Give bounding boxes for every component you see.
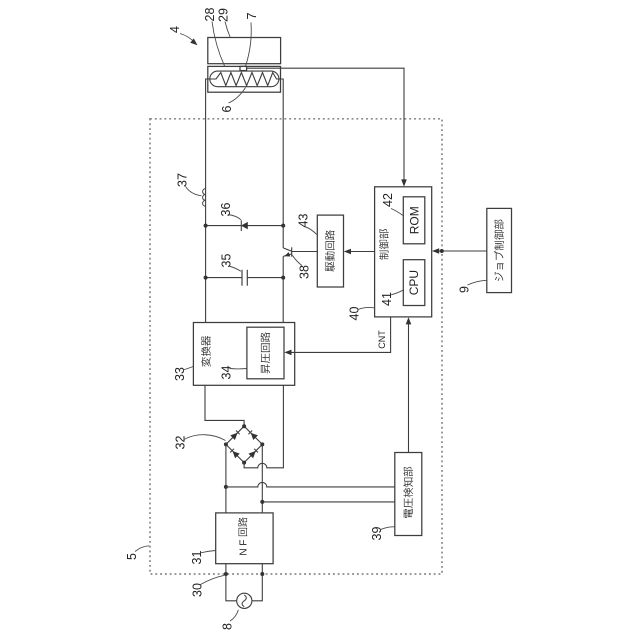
bridge diode top-left (230, 430, 240, 440)
label 9 leader (468, 280, 487, 285)
bridge right corner node (260, 442, 264, 446)
svg-text:29: 29 (217, 8, 231, 22)
wire bridge bottom to converter (with hop) (244, 385, 283, 468)
rectifier bridge 32 diamond (226, 426, 262, 462)
wire voltage detect to controller (408, 319, 410, 453)
wire capacitor row right (247, 277, 283, 279)
voltage detection box 39 (395, 453, 422, 536)
diode 36 cathode bar (240, 220, 242, 231)
job controller label text 9 (494, 220, 504, 281)
label 32 leader (184, 435, 226, 441)
wire diode row (206, 225, 284, 227)
thermistor 7 (240, 66, 247, 70)
converter box 33 (193, 323, 294, 386)
label 30 leader (201, 575, 225, 584)
wire controller to drive circuit (345, 251, 375, 253)
svg-text:30: 30 (191, 583, 205, 597)
heating element resistor zigzag 6 (210, 73, 279, 86)
bridge diode bottom-right (248, 448, 258, 458)
svg-text:34: 34 (220, 366, 234, 380)
wire bridge left corner to NF (225, 444, 227, 513)
controller label text 40 (379, 229, 389, 259)
bridge diode bottom-left (230, 448, 240, 458)
CPU box 41 (403, 260, 425, 306)
ROM box 42 (403, 197, 425, 244)
svg-text:38: 38 (298, 265, 312, 279)
svg-text:CNT: CNT (377, 330, 387, 349)
power supply unit dashed border 5 (150, 119, 442, 574)
svg-text:42: 42 (381, 193, 395, 207)
label 6 leader (229, 88, 246, 104)
wire right rail lower (transistor to converter) (282, 256, 284, 322)
border crossing dot right (260, 572, 264, 576)
boost circuit box 34 (247, 327, 284, 379)
label 41 leader (391, 290, 404, 295)
svg-text:ROM: ROM (407, 206, 421, 234)
converter label text 33 (201, 336, 211, 367)
label 43 leader (306, 227, 318, 235)
label 4 arrowhead (190, 38, 199, 47)
transistor 38 emitter arrow (283, 252, 290, 258)
wire voltage sense upper (with hop) (226, 482, 395, 487)
wire thermistor to controller (247, 68, 404, 181)
svg-text:5: 5 (125, 553, 139, 560)
wire bridge right corner to NF (261, 444, 263, 513)
capacitor 35 plates (242, 270, 247, 286)
svg-text:4: 4 (168, 26, 182, 33)
label 36 leader (228, 215, 241, 220)
junction right rail / capacitor row (281, 276, 285, 280)
transistor 38 (283, 247, 292, 256)
svg-text:32: 32 (174, 436, 188, 450)
border crossing dot on job wire (440, 249, 444, 253)
job controller box 9 (487, 208, 512, 292)
label 4 arrow leader (180, 34, 196, 44)
wire job controller to controller (434, 250, 487, 252)
diode 36 (242, 222, 248, 228)
CNT wire controller to boost (286, 317, 391, 353)
junction voltage sense lower (260, 500, 264, 504)
drive circuit box 43 (317, 215, 343, 287)
svg-text:7: 7 (245, 12, 259, 19)
svg-text:35: 35 (220, 254, 234, 268)
AC source 8 circle (237, 593, 252, 608)
wire right rail upper (heater to transistor) (279, 79, 283, 248)
label 40 leader (358, 307, 374, 309)
arrow into controller top (401, 179, 407, 186)
svg-text:36: 36 (219, 203, 233, 217)
label 42 leader (391, 209, 403, 216)
label 29 leader (225, 22, 230, 38)
label 39 leader (381, 527, 395, 530)
svg-text:41: 41 (380, 292, 394, 306)
svg-text:37: 37 (176, 173, 190, 187)
heating element outline 6 (210, 71, 279, 87)
label 38 leader (292, 255, 302, 265)
wire transistor base to drive circuit (292, 251, 318, 253)
bridge left corner node (224, 442, 228, 446)
junction voltage sense upper (224, 485, 228, 489)
label 34 leader (230, 368, 247, 370)
arrow into controller right (432, 248, 439, 254)
label 37 leader (186, 187, 202, 196)
label 7 leader (246, 23, 252, 67)
label 5 leader (135, 546, 149, 552)
svg-text:28: 28 (203, 8, 217, 22)
AC source 8 sine symbol (rotated) (242, 595, 246, 607)
NF circuit label text 31 (238, 517, 249, 555)
wire NF to AC source right (252, 564, 262, 601)
junction left rail / capacitor row (204, 276, 208, 280)
label 35 leader (229, 266, 241, 271)
svg-text:CPU: CPU (407, 270, 421, 295)
junction left rail / diode row (204, 224, 208, 228)
svg-text:N: N (238, 548, 249, 555)
bridge top corner node (242, 424, 246, 428)
svg-text:8: 8 (221, 623, 235, 630)
label 28 leader (212, 22, 225, 67)
arrow into drive circuit (344, 249, 351, 255)
wire capacitor row left (206, 277, 242, 279)
voltage detection label text 39 (403, 467, 413, 518)
fuser pressure roller box 29 (208, 38, 281, 64)
boost circuit label text 34 (260, 332, 270, 373)
junction right rail / diode row (281, 224, 285, 228)
label 33 leader (183, 367, 193, 371)
wire NF to AC source left (226, 564, 237, 601)
wire left rail (heater to converter) (206, 79, 210, 323)
controller box 40 (375, 187, 432, 317)
wire converter to bridge top corner (205, 385, 244, 426)
svg-text:F: F (238, 540, 249, 546)
drive circuit label text 43 (325, 230, 335, 271)
NF circuit box 31 (216, 513, 273, 564)
label 31 leader (200, 551, 216, 554)
arrow into boost circuit (284, 350, 291, 356)
inductor 37 (203, 189, 206, 207)
bridge diode top-right (248, 430, 258, 440)
svg-text:9: 9 (458, 286, 472, 293)
fuser heater plate box 28 (208, 66, 281, 92)
border crossing dot 30 (224, 572, 228, 576)
label 8 leader (230, 610, 238, 621)
arrow into controller bottom (406, 317, 412, 324)
svg-text:43: 43 (297, 214, 311, 228)
svg-text:6: 6 (220, 105, 234, 112)
bridge bottom corner node (242, 461, 246, 465)
wire voltage sense lower (262, 501, 395, 503)
